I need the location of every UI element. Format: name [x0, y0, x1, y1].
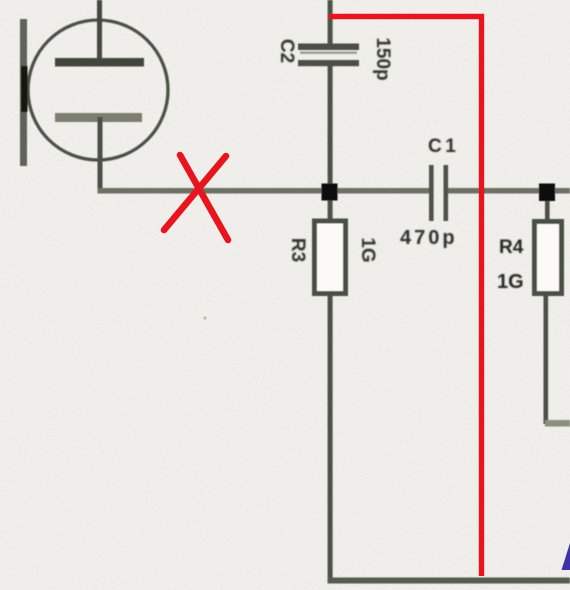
svg-text:1G: 1G	[357, 237, 378, 262]
svg-text:470p: 470p	[400, 227, 458, 249]
svg-text:150p: 150p	[372, 37, 393, 80]
svg-text:C1: C1	[428, 136, 459, 157]
svg-text:R3: R3	[287, 238, 308, 262]
svg-text:R4: R4	[499, 237, 524, 258]
svg-text:1G: 1G	[497, 271, 524, 293]
svg-text:C2: C2	[276, 39, 297, 63]
